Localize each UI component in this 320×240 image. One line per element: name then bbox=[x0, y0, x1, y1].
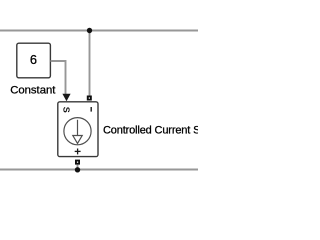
svg-text:Controlled Current Source: Controlled Current Source bbox=[103, 125, 198, 137]
wire top rail bbox=[0, 30, 198, 32]
wire constant output to source signal input bbox=[51, 61, 66, 95]
pin label minus bbox=[90, 107, 92, 112]
port square top of source bbox=[87, 96, 92, 101]
node junction on bottom rail bbox=[75, 167, 80, 172]
controlled current source block U1 bbox=[58, 102, 98, 157]
wire from top rail down to current port bbox=[89, 31, 91, 96]
wire bottom rail bbox=[0, 169, 198, 171]
svg-text:S: S bbox=[62, 107, 72, 113]
svg-text:Constant: Constant bbox=[10, 84, 56, 96]
pin label plus bbox=[75, 149, 81, 155]
current source circle bbox=[64, 118, 91, 145]
node junction on top rail bbox=[87, 28, 92, 33]
wire source bottom port to bottom rail bbox=[77, 165, 79, 170]
arrowhead into signal input bbox=[62, 94, 70, 102]
constant block B1 bbox=[17, 43, 51, 78]
svg-text:6: 6 bbox=[30, 52, 37, 67]
current arrow shaft bbox=[77, 120, 79, 136]
current arrow open head bbox=[73, 136, 82, 144]
port square bottom of source bbox=[75, 160, 80, 165]
